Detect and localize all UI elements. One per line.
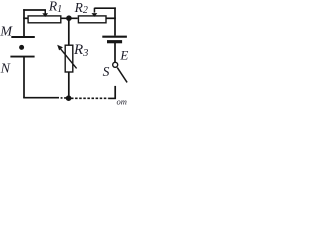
capacitor plate N bbox=[10, 56, 34, 58]
resistor R3 diagonal arrow bbox=[57, 45, 76, 69]
node junction dot bottom bbox=[66, 95, 72, 101]
svg-text:M: M bbox=[0, 25, 13, 40]
resistor R2 wiper arrow bbox=[92, 8, 98, 17]
resistor R2 body bbox=[78, 16, 106, 23]
wire bottom last solid segment to switch lead bbox=[108, 97, 116, 99]
svg-text:S: S bbox=[103, 64, 110, 79]
charged particle between plates bbox=[19, 45, 24, 50]
switch S pivot circle bbox=[113, 62, 118, 67]
wire left vertical bottom (plate N to bottom-left corner) bbox=[23, 57, 25, 97]
wire R2 wiper rail bbox=[94, 7, 115, 9]
resistor R1 body bbox=[28, 16, 61, 23]
wire middle vertical bottom (R3 to bottom junction) bbox=[68, 72, 70, 98]
svg-text:om: om bbox=[117, 97, 127, 106]
wire middle vertical top (junction to R3) bbox=[68, 18, 70, 46]
node junction dot top (between R1 and R2) bbox=[66, 15, 72, 21]
switch S blade bbox=[117, 68, 127, 83]
capacitor plate M bbox=[11, 36, 35, 38]
wire top-left rail (corner to R1 wiper) bbox=[23, 9, 46, 11]
wire battery to switch pivot bbox=[114, 43, 116, 62]
wire right vertical (R2 rail down to battery) bbox=[114, 7, 116, 35]
resistor R3 body bbox=[65, 45, 73, 72]
battery E long plate bbox=[102, 36, 127, 38]
wire switch fixed lead bbox=[114, 86, 116, 99]
svg-text:N: N bbox=[0, 62, 11, 77]
wire bottom solid segment bbox=[23, 97, 59, 99]
wire R1 right end to R2 left end bbox=[61, 17, 78, 19]
wire R2 right end to right vertical bbox=[106, 17, 116, 19]
wire bottom dash-dot segment left of junction bbox=[61, 97, 67, 99]
wire stub left rail to R1 left end bbox=[23, 17, 28, 19]
battery E short plate bbox=[107, 40, 122, 43]
resistor R1 wiper arrow bbox=[42, 10, 48, 17]
wire left vertical top (top-left corner to plate M) bbox=[23, 9, 25, 36]
svg-text:E: E bbox=[119, 47, 128, 62]
wire bottom dash-dot segment right of junction bbox=[71, 97, 108, 99]
